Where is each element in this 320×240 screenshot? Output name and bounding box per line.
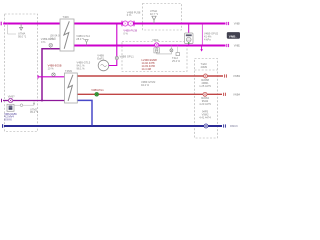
svg-text:T4M9: T4M9 <box>65 69 72 73</box>
svg-text:10 %: 10 % <box>48 67 55 71</box>
red bus B end marker <box>224 93 226 96</box>
svg-text:4.20 44?9: 4.20 44?9 <box>199 102 211 106</box>
switch on magenta branch into T2 <box>52 73 55 76</box>
wire from VM6L box to bus2 via switch <box>157 46 172 54</box>
red feeder bus B <box>77 93 222 95</box>
svg-text:0 %: 0 % <box>123 32 128 36</box>
transformer T2 (2-winding box with bolt) <box>65 73 78 103</box>
navy LV busbar <box>4 125 222 127</box>
double breaker symbol on bus1 <box>122 21 134 27</box>
svg-text:25.4 %: 25.4 % <box>172 59 181 63</box>
magenta branch into T2 left <box>38 76 65 78</box>
dashed zone box E (small boundary above right box) <box>195 59 218 139</box>
green breaker on red bus B <box>95 92 99 96</box>
arrow connector to purple wire <box>33 102 35 104</box>
purple tie wire T1 to T2 <box>42 49 60 101</box>
dashed zone box D (bottom right boundary) <box>195 69 218 71</box>
external grid symbol left <box>20 23 23 31</box>
svg-text:14.4 4M: 14.4 4M <box>142 67 151 71</box>
svg-text:V4B9 GPL1: V4B9 GPL1 <box>120 55 135 59</box>
purple feeder wire bottom left <box>3 100 65 102</box>
svg-text:VNB9: VNB9 <box>234 22 240 26</box>
royalblue cable from transformer T2 to LV bus <box>77 100 92 126</box>
svg-text:94.2 %: 94.2 % <box>141 83 150 87</box>
external grid symbol top middle <box>152 16 156 23</box>
breaker on navy bus in box D <box>204 124 208 128</box>
svg-text:T409: T409 <box>63 15 70 19</box>
junction dots <box>116 45 118 47</box>
transformer T1 (2-winding box with bolt) <box>60 19 74 51</box>
svg-text:44M9: 44M9 <box>201 65 208 69</box>
svg-text:VNB_: VNB_ <box>229 34 238 38</box>
bottom left purple breaker <box>8 98 12 102</box>
svg-text:EaP1: EaP1 <box>97 56 104 60</box>
VM6L breaker on bus2 <box>155 43 159 47</box>
battery device between bus1 and bus2 <box>185 24 194 46</box>
leader line to label <box>8 24 17 35</box>
switch on generator wire <box>115 56 118 59</box>
svg-text:4 kPa: 4 kPa <box>204 38 211 42</box>
breaker on red bus A in box D <box>204 74 208 78</box>
svg-text:V4B9-PG1: V4B9-PG1 <box>91 88 104 92</box>
load arrow on bus2 left <box>85 40 88 43</box>
switch on purple wire near T1 <box>49 44 52 47</box>
svg-text:VNB2: VNB2 <box>234 44 240 48</box>
breaker on red bus B in box D <box>203 92 207 96</box>
svg-text:4.41 44?4: 4.41 44?4 <box>199 116 211 120</box>
bus2 magenta busbar <box>74 45 226 47</box>
thin magenta branch right with labels <box>201 24 203 46</box>
bus1 left terminal tick <box>0 22 2 26</box>
bus2 right end marker <box>227 44 229 47</box>
navy bus right end marker <box>224 124 226 127</box>
navy bus left tick <box>2 124 4 128</box>
wire from machine box to small switch <box>14 101 34 105</box>
svg-text:28.3 *1: 28.3 *1 <box>76 37 85 41</box>
svg-text:0 %: 0 % <box>41 40 46 44</box>
svg-text:RMU9: RMU9 <box>230 124 238 128</box>
red feeder bus A <box>77 75 223 77</box>
load arrow below bus2 right <box>200 46 203 52</box>
dashed zone box B (top middle boundary) <box>143 4 182 31</box>
svg-text:96.1 %: 96.1 % <box>77 67 86 71</box>
VM6L transformer box below bus2 <box>154 48 160 53</box>
bus1 right end marker <box>227 22 229 25</box>
junction node purple <box>41 100 43 102</box>
svg-text:VM6?: VM6? <box>8 94 15 98</box>
dark button VNB <box>227 32 240 39</box>
svg-text:8.9 K6: 8.9 K6 <box>4 118 12 122</box>
dashed zone box C (middle boundary) <box>122 42 187 72</box>
svg-text:0 %: 0 % <box>127 13 132 17</box>
svg-text:95.0 *1: 95.0 *1 <box>18 34 27 38</box>
svg-text:95.4 *1: 95.4 *1 <box>30 110 39 114</box>
bottom left machine box <box>7 104 14 111</box>
small symbol on bus2 at right of VM6L cluster <box>176 53 180 56</box>
svg-text:VNB4: VNB4 <box>233 92 240 96</box>
generator G1 circle <box>98 60 109 71</box>
red bus A end marker <box>225 74 227 77</box>
svg-text:VM6L: VM6L <box>152 38 159 42</box>
svg-text:VNB3: VNB3 <box>233 74 240 78</box>
generator connection wire magenta <box>109 24 117 66</box>
bus1 110kV busbar magenta <box>3 23 225 25</box>
svg-text:1.25 44?9: 1.25 44?9 <box>199 84 211 88</box>
magenta branch end tick <box>37 75 39 79</box>
purple wire left tick <box>1 99 3 102</box>
small switch on machine wire <box>20 104 23 107</box>
svg-text:32.7 *1: 32.7 *1 <box>150 12 159 16</box>
dashed zone box A (left substation boundary) <box>5 14 38 132</box>
